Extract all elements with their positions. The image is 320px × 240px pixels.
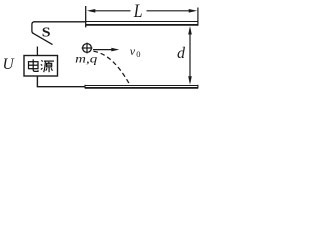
extension line right of L dimension xyxy=(197,8,199,26)
top plate xyxy=(86,22,198,25)
svg-text:U: U xyxy=(3,56,16,73)
svg-text:0: 0 xyxy=(136,49,140,59)
trajectory dashed parabola xyxy=(94,51,130,84)
charged particle ⊕ xyxy=(82,43,93,54)
svg-text:m,q: m,q xyxy=(75,53,97,65)
d dimension double arrow xyxy=(188,26,192,85)
switch S xyxy=(32,22,53,56)
bottom plate xyxy=(85,85,198,89)
svg-text:S: S xyxy=(42,24,51,39)
wire battery bottom to bottom plate xyxy=(37,76,85,87)
power supply box xyxy=(24,56,58,77)
svg-text:d: d xyxy=(177,45,186,62)
svg-text:v: v xyxy=(130,44,136,58)
glyph 源 (hand-drawn) xyxy=(41,60,54,72)
svg-text:L: L xyxy=(133,1,143,22)
L dimension arrows xyxy=(87,9,197,13)
extension line left of L dimension xyxy=(85,6,87,27)
v0 velocity arrow xyxy=(93,48,119,52)
glyph 电 (hand-drawn) xyxy=(29,59,39,71)
wire top horizontal from switch to top plate xyxy=(34,21,86,23)
